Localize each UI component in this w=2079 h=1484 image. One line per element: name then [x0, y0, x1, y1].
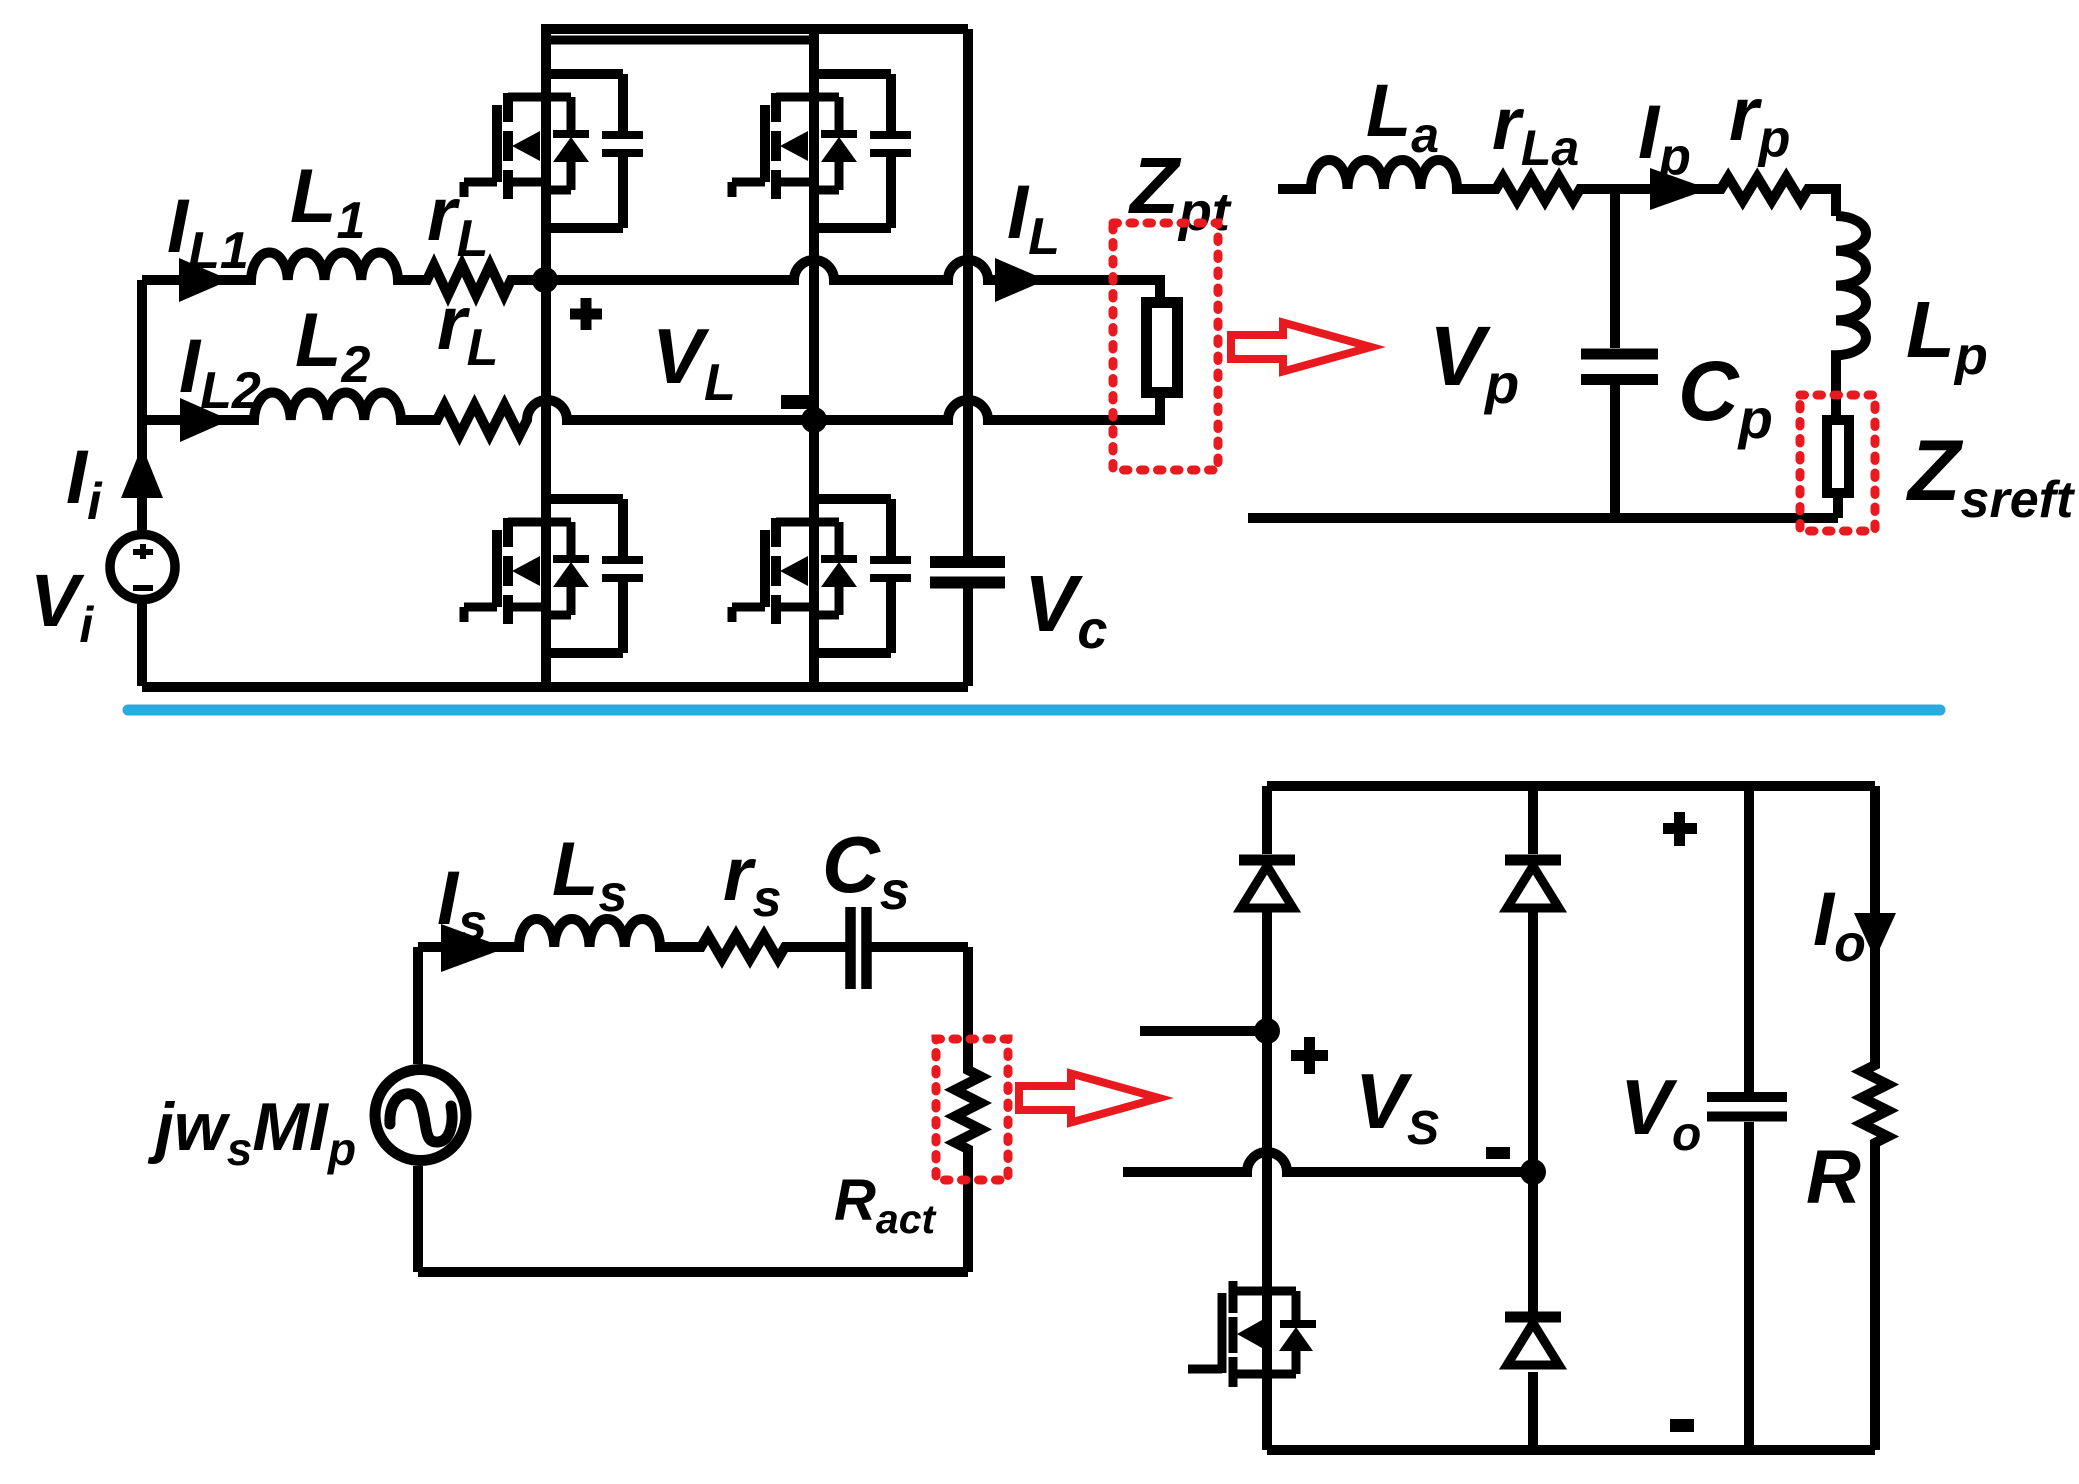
plus sign Vs: [1291, 1050, 1328, 1061]
node dot Vs-: [1520, 1159, 1546, 1185]
left vertical wire: [137, 280, 147, 686]
inner top rail line: [546, 36, 814, 45]
dashed box Ract: [936, 1039, 1008, 1180]
svg-text:jwsMIp: jwsMIp: [147, 1089, 356, 1175]
leg A vertical: [1262, 786, 1272, 1450]
svg-text:R: R: [1806, 1135, 1861, 1220]
minus sign Vs: [1486, 1147, 1510, 1159]
wire row 1 with inductor L1, resistor rL, hops, to Zpt: [142, 253, 1160, 297]
wire from Zsreft to bottom rail: [1833, 498, 1843, 518]
bottom rail: [142, 682, 968, 692]
voltage source Vi: [110, 535, 175, 600]
top rail: [541, 24, 968, 34]
input stub - (Vs) with hop over leg A: [1123, 1152, 1533, 1172]
leg B vertical: [1528, 786, 1538, 1450]
current arrow Ii: [121, 446, 163, 498]
inductor Lp (vertical): [1836, 216, 1866, 415]
dashed box Zsreft: [1800, 395, 1875, 531]
resistor Zsreft body: [1827, 420, 1849, 493]
wire row 2 with inductor L2, resistor rL, hop over leg1, to Zpt: [142, 393, 1160, 435]
load resistor Zpt: [1147, 303, 1178, 393]
bridge leg 1: [541, 29, 551, 686]
arrow IL2: [180, 398, 230, 442]
arrow Is: [441, 924, 506, 972]
blue divider line: [128, 705, 1940, 716]
capacitor Cp plates: [1581, 354, 1658, 380]
diode D2: [1505, 855, 1561, 866]
MOSFET cell Q2 (top of leg 2): [732, 74, 911, 228]
dashed box Zpt: [1113, 223, 1218, 470]
bottom wire: [1248, 513, 1838, 523]
diode D1: [1239, 855, 1295, 866]
bottom rail: [1267, 1445, 1875, 1455]
capacitor Cs plates: [851, 907, 867, 989]
bottom wire: [418, 1267, 968, 1277]
red arrow to rectifier: [1019, 1074, 1159, 1123]
right vertical with resistor Ract: [955, 947, 981, 1272]
node B dot: [801, 407, 827, 433]
capacitor Vo plates: [1707, 1097, 1787, 1117]
diode D3: [1505, 1312, 1561, 1323]
capacitor Vo branch: [1744, 786, 1754, 1450]
right DC-link vertical: [963, 29, 973, 686]
MOSFET Q5 on leg A: [1188, 1281, 1316, 1387]
minus sign Vo bottom: [1670, 1419, 1694, 1432]
bridge leg 2: [809, 29, 819, 686]
MOSFET cell Q4 (bottom of leg 2): [732, 499, 911, 653]
arrow Ip: [1650, 168, 1709, 210]
arrow IL: [995, 258, 1046, 302]
MOSFET cell Q3 (bottom of leg 1): [464, 499, 643, 653]
top wire: inductor Ls, resistor rs, capacitor Cs: [418, 919, 846, 959]
load R branch: [1862, 786, 1888, 1450]
MOSFET cell Q1 (top of leg 1): [464, 74, 643, 228]
top wire: inductor La, resistor rLa, node, resistor rp: [1278, 160, 1836, 216]
arrow IL1: [179, 258, 230, 302]
left vertical wire: [413, 947, 423, 1272]
plus sign VL: [570, 309, 602, 320]
node A dot: [532, 267, 558, 293]
top rail: [1267, 781, 1875, 791]
sine symbol: [390, 1094, 452, 1142]
minus sign VL: [781, 395, 811, 409]
source jwsMIp circle: [375, 1070, 466, 1161]
input stub + (Vs): [1140, 1026, 1267, 1036]
capacitor Cp branch: [1610, 189, 1620, 518]
arrow Io: [1854, 913, 1896, 959]
plus sign Vo: [1663, 823, 1697, 834]
capacitor Vc plates: [930, 562, 1005, 583]
node dot Vs+: [1254, 1018, 1280, 1044]
red arrow to equivalent circuit: [1231, 323, 1371, 372]
